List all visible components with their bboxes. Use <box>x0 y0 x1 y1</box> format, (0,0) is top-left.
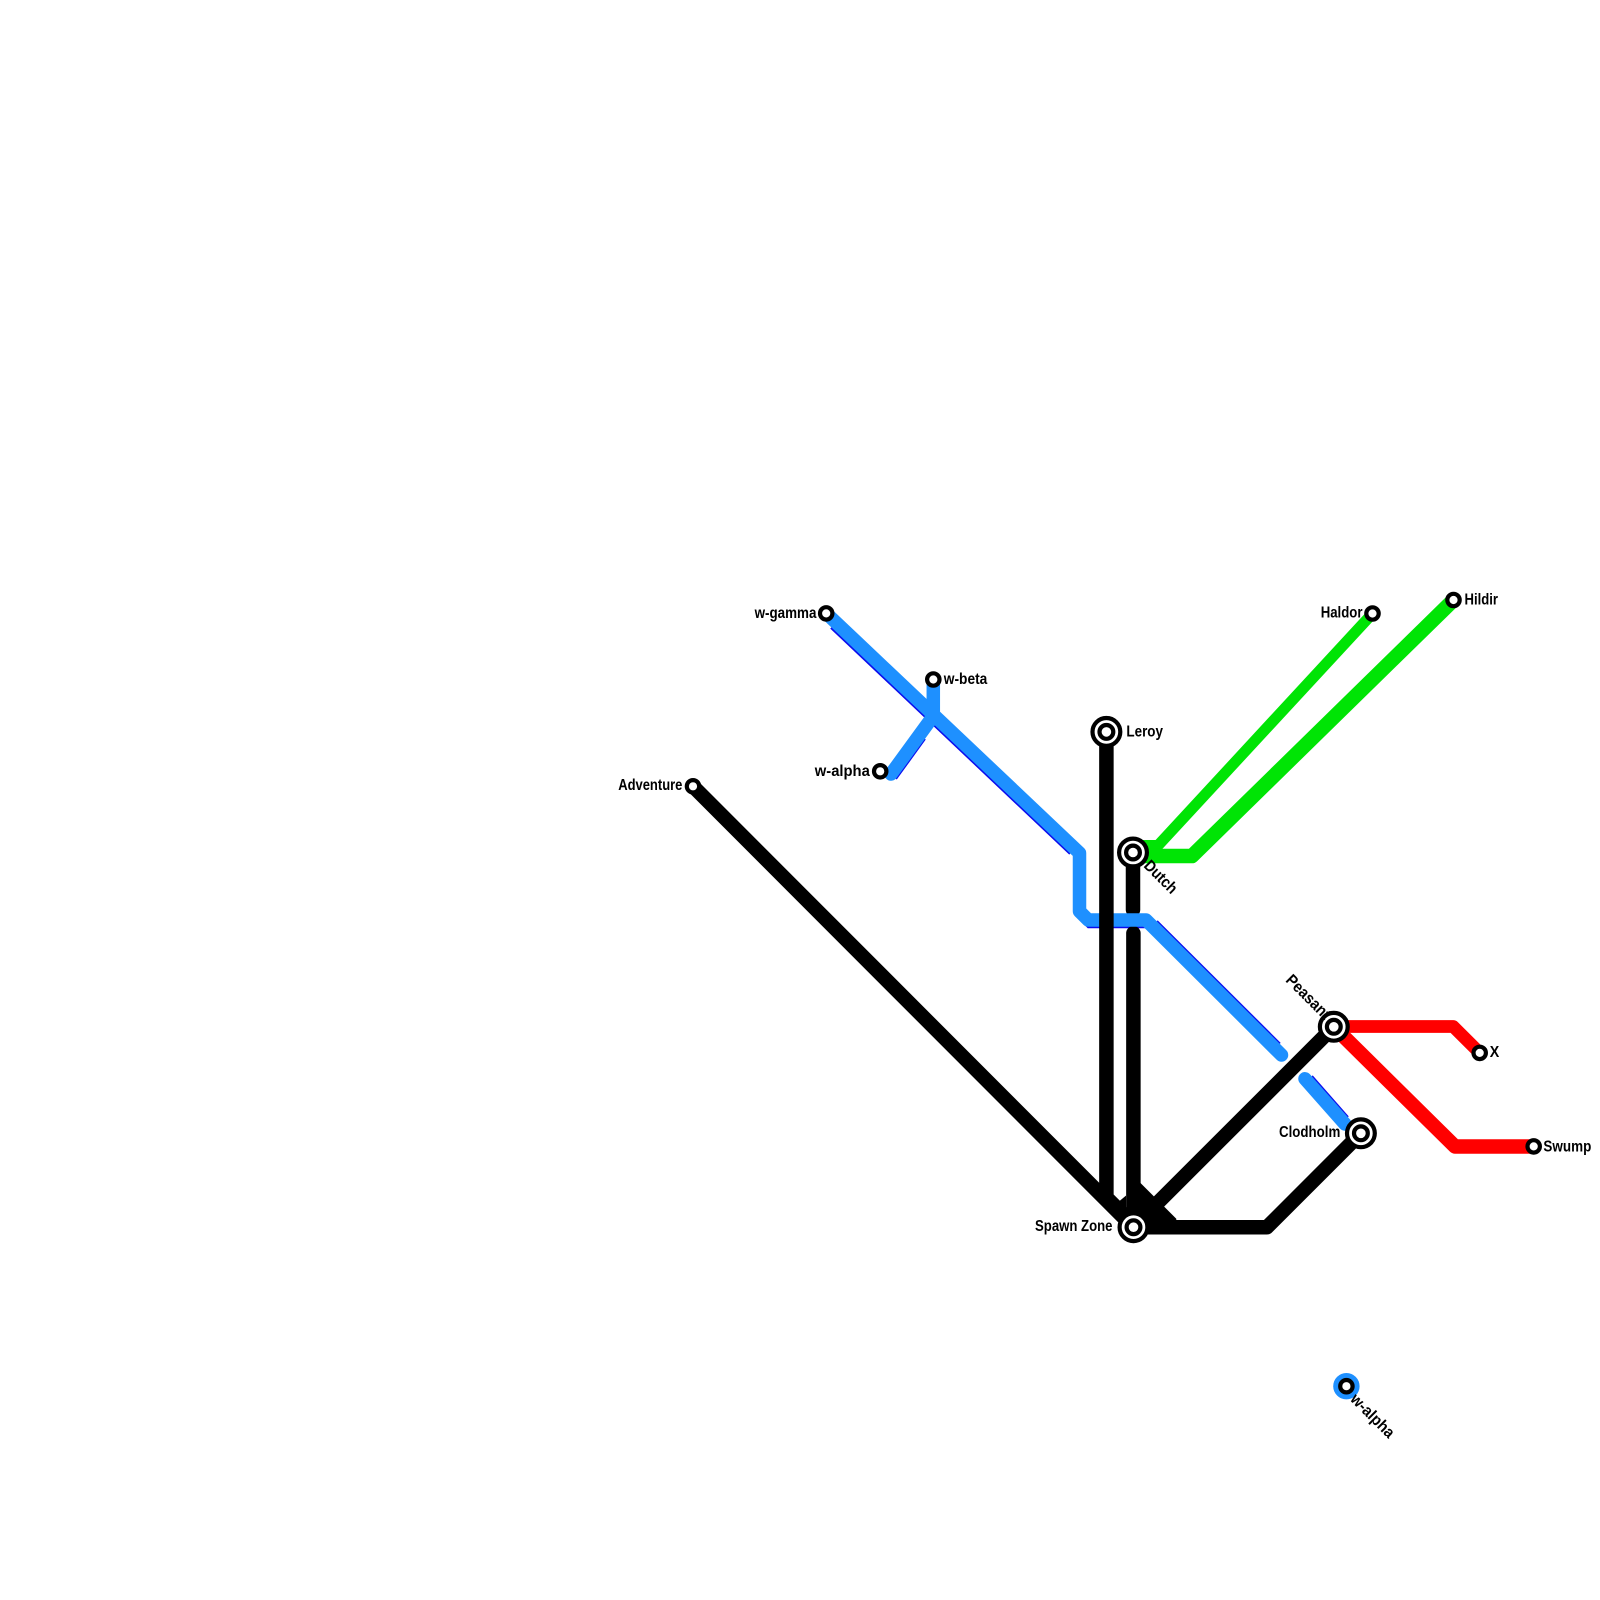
node w-alpha2 <box>1340 1380 1352 1392</box>
wire black dogleg Dutch line to Clodholm horizontal <box>1133 1176 1176 1235</box>
svg-text:Adventure: Adventure <box>618 777 682 794</box>
svg-text:Hildir: Hildir <box>1465 592 1499 609</box>
wire red line Peasant to Swump <box>1334 1027 1534 1147</box>
wire navy fringe of blue Peasant-Clodholm segment (upper-right edge) <box>1312 1076 1348 1117</box>
wire navy fringe of blue w-alpha branch (lower-right edge) <box>896 739 925 779</box>
svg-text:Spawn Zone: Spawn Zone <box>1035 1218 1113 1235</box>
wire black line Spawn Zone to Clodholm <box>1133 1133 1361 1227</box>
node Spawn Zone interchange <box>1120 1213 1148 1241</box>
node Peasant interchange <box>1320 1013 1348 1041</box>
wire navy fringe of blue Dutch-Peasant diagonal (upper-right edge) <box>1157 921 1280 1044</box>
svg-text:X: X <box>1490 1044 1500 1061</box>
node Dutch interchange <box>1119 839 1147 867</box>
wire black line Adventure to Spawn Zone <box>693 786 1133 1227</box>
node X <box>1474 1047 1486 1059</box>
wire navy fringe of blue w-gamma diagonal (lower-left edge) <box>831 628 1070 854</box>
node w-alpha <box>874 765 886 777</box>
node w-beta <box>927 673 939 685</box>
node Hildir <box>1447 594 1459 606</box>
wire green line Dutch to Haldor <box>1133 614 1373 846</box>
wire blue line Peasant gap to Clodholm <box>1305 1079 1345 1124</box>
wire blue branch w-beta to w-alpha <box>891 680 933 775</box>
wire black line Peasant to Spawn Zone <box>1134 1027 1334 1227</box>
wire blue main line w-gamma to Peasant gap <box>827 614 1282 1056</box>
svg-text:Clodholm: Clodholm <box>1279 1124 1340 1141</box>
wire red line Peasant to X <box>1334 1027 1480 1053</box>
svg-text:w-gamma: w-gamma <box>754 605 817 622</box>
svg-text:w-beta: w-beta <box>943 671 987 688</box>
wire black line Leroy to Spawn Zone <box>1106 732 1133 1227</box>
wire navy fringe of blue horizontal jog (bottom edge) <box>1083 922 1146 927</box>
svg-text:Haldor: Haldor <box>1321 605 1363 622</box>
node w-alpha2 blue blob <box>1333 1373 1359 1399</box>
svg-text:Leroy: Leroy <box>1126 723 1163 740</box>
wire green line Dutch to Hildir <box>1133 600 1454 856</box>
svg-text:w-alpha: w-alpha <box>814 763 870 780</box>
node Swump <box>1528 1140 1540 1152</box>
node Haldor <box>1366 607 1378 619</box>
wire black line blue crossing to Spawn Zone (under blue) <box>1126 933 1141 1227</box>
wire black gap closure at vertical convergence <box>1119 1196 1126 1208</box>
node w-gamma <box>820 607 832 619</box>
svg-text:Swump: Swump <box>1543 1139 1591 1156</box>
wire black line Dutch to blue crossing (under blue) <box>1126 853 1141 910</box>
node Clodholm interchange <box>1347 1119 1375 1147</box>
node Leroy interchange <box>1093 718 1121 746</box>
node Adventure <box>687 780 699 792</box>
